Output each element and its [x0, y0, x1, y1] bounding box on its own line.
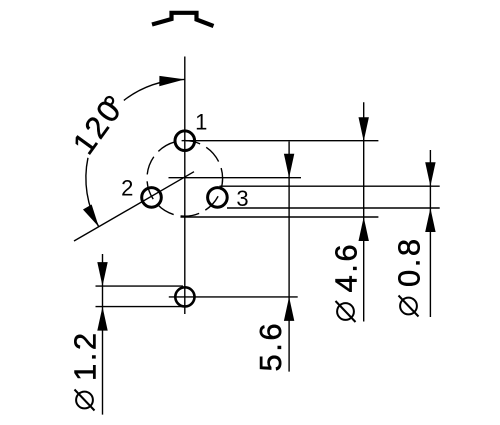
svg-text:1.2: 1.2: [68, 330, 103, 381]
120 deg label: [66, 91, 130, 161]
arrow dia0.8 top: [425, 162, 435, 186]
label dia 1.2: [68, 330, 103, 410]
extension line hole3 top edge: [220, 185, 440, 187]
dimension line 5.6: [288, 142, 290, 372]
arrow dia1.2 top: [97, 262, 107, 286]
extension line hole1 center: [186, 140, 378, 142]
extension line hole3 bottom edge: [227, 207, 440, 209]
hole 3: [208, 188, 228, 208]
horizontal centerline through bolt circle center: [169, 177, 302, 179]
arrow dia0.8 bottom: [425, 208, 435, 232]
svg-text:1: 1: [195, 110, 207, 135]
vertical centerline: [184, 57, 186, 315]
dimension line dia 1.2: [102, 254, 104, 415]
bolt circle (dashed): [147, 141, 223, 217]
label dia 4.6: [329, 242, 364, 322]
svg-text:5.6: 5.6: [253, 321, 288, 372]
hole 2: [142, 188, 162, 208]
arrow dia4.6 top: [359, 117, 369, 141]
keyway profile symbol: [152, 13, 214, 26]
arc arrowhead bottom: [83, 205, 99, 227]
arrow dia4.6 bottom: [359, 217, 369, 241]
svg-text:0.8: 0.8: [392, 236, 427, 287]
label 5.6: [253, 321, 288, 372]
extension line bottom hole top edge: [96, 285, 184, 287]
120 degree line through hole 2: [74, 172, 194, 241]
dimension line dia 4.6: [363, 102, 365, 321]
extension line bottom hole bottom edge: [96, 306, 185, 308]
arc arrowhead top: [159, 76, 185, 86]
hole 1: [175, 131, 195, 151]
extension line bolt circle bottom: [181, 216, 379, 218]
svg-text:4.6: 4.6: [329, 242, 364, 293]
bottom hole horizontal centerline: [169, 296, 298, 298]
120 degree dimension arc lower segment: [86, 158, 99, 227]
svg-text:3: 3: [236, 186, 248, 211]
120 degree dimension arc upper segment: [124, 79, 185, 100]
svg-text:2: 2: [121, 176, 133, 201]
arrow 5.6 bottom: [284, 297, 294, 321]
arrow 5.6 top: [284, 154, 294, 178]
label dia 0.8: [392, 236, 427, 316]
bottom hole: [175, 287, 194, 306]
dimension line dia 0.8: [429, 150, 431, 317]
svg-text:120: 120: [66, 92, 129, 160]
arrow dia1.2 bottom: [97, 307, 107, 331]
